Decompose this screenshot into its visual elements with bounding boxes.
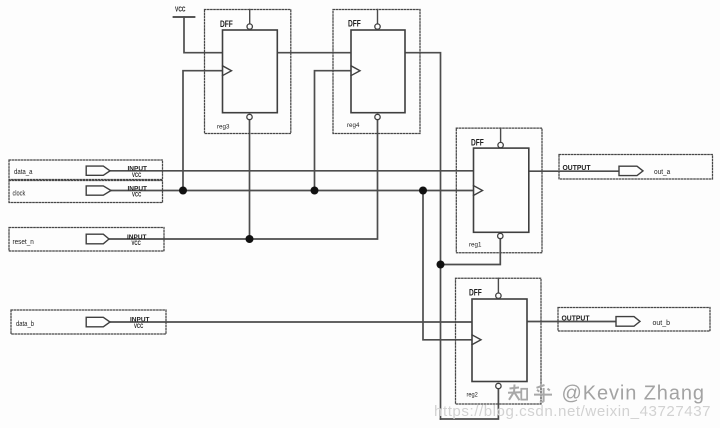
input pin reset_n (9, 228, 164, 252)
input pin clock (9, 181, 163, 203)
svg-text:reg1: reg1 (469, 242, 482, 249)
junction reset-reg3 (246, 235, 254, 243)
junction clock-reg2 (419, 187, 427, 195)
wire data_b to reg2.D (110, 321, 472, 323)
dff reg4 (333, 10, 420, 134)
wire reg1.Q to out_a (529, 170, 620, 172)
svg-text:reg3: reg3 (217, 123, 230, 130)
reg4 pin PRN (377, 10, 379, 25)
wire reg3.Q to reg4.D (277, 52, 351, 54)
wire reg2.Q to out_b (527, 321, 616, 323)
svg-text:VCC: VCC (132, 172, 141, 179)
junction clock-reg4 (311, 187, 319, 195)
watermark zhihu logo (508, 385, 552, 402)
junction clock-reg3 (179, 187, 187, 195)
svg-text:clock: clock (13, 190, 26, 197)
svg-text:reg2: reg2 (467, 392, 478, 399)
wire clock trunk (111, 190, 474, 192)
output pin out_a (559, 155, 713, 180)
svg-text:DFF: DFF (471, 137, 484, 147)
reg4 pin CLK (351, 66, 360, 76)
input pin data_b (11, 310, 166, 334)
svg-text:out_a: out_a (654, 169, 670, 176)
wire reg4.Q clear net (405, 53, 441, 419)
reg3 pin PRN (249, 10, 251, 25)
svg-text:out_b: out_b (653, 320, 671, 327)
wire clock branch to reg2 clk (423, 191, 472, 340)
reg2 pin CLRN (496, 383, 501, 388)
reg2 pin PRN (497, 278, 499, 293)
reg4 pin CLRN (375, 114, 380, 119)
power VCC (174, 5, 195, 18)
svg-text:VCC: VCC (134, 323, 143, 330)
wire data_a to reg1.D (110, 170, 474, 172)
wire VCC to reg3.D (184, 17, 223, 53)
svg-text:data_a: data_a (14, 169, 33, 176)
reg3 pin CLK (223, 66, 232, 76)
junction clear-reg1 (437, 261, 445, 269)
svg-text:VCC: VCC (175, 5, 186, 14)
svg-text:VCC: VCC (132, 192, 141, 199)
reg2 pin CLK (472, 335, 481, 345)
svg-text:DFF: DFF (469, 288, 482, 298)
svg-text:data_b: data_b (16, 321, 34, 328)
output pin out_b (558, 308, 710, 332)
reg3 pin CLRN (247, 114, 252, 119)
wire clear net to reg1.CLRN (441, 239, 501, 265)
wire reset_n to reg4.CLRN (109, 120, 378, 239)
svg-text:OUTPUT: OUTPUT (563, 163, 592, 172)
wire clock branch to reg3 clk (183, 71, 223, 191)
svg-text:DFF: DFF (348, 19, 361, 29)
svg-text:reset_n: reset_n (13, 239, 34, 246)
dff reg2 (456, 278, 542, 404)
input pin data_a (9, 160, 163, 180)
svg-text:OUTPUT: OUTPUT (562, 314, 591, 323)
svg-text:VCC: VCC (132, 240, 141, 247)
dff reg3 (205, 10, 291, 134)
reg1 pin CLRN (498, 233, 503, 238)
wire reset branch to reg3.CLRN (249, 120, 251, 239)
svg-text:reg4: reg4 (347, 122, 360, 129)
wire clock branch to reg4 clk (315, 71, 352, 191)
svg-text:DFF: DFF (220, 19, 233, 29)
dff reg1 (456, 128, 542, 253)
reg1 pin CLK (474, 186, 483, 196)
wire clear net to reg2.CLRN (441, 389, 499, 419)
svg-text:https://blog.csdn.net/weixin_4: https://blog.csdn.net/weixin_43727437 (434, 403, 711, 420)
reg1 pin PRN (500, 128, 502, 142)
svg-text:@Kevin Zhang: @Kevin Zhang (562, 382, 705, 404)
